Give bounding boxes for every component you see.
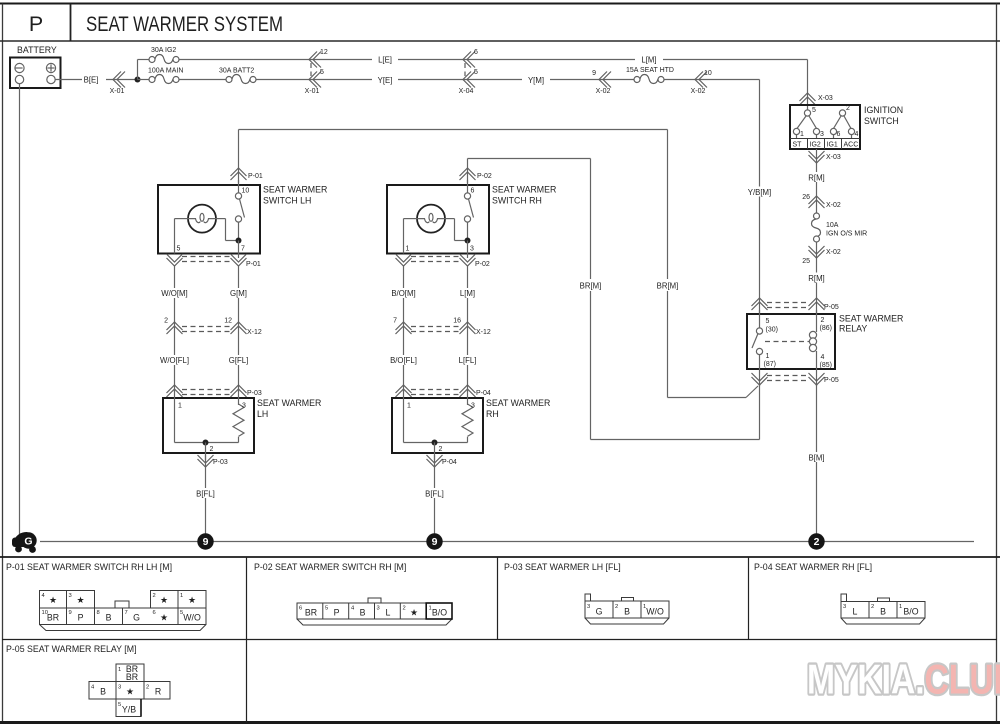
svg-text:BR: BR <box>305 608 317 618</box>
wire Y[E] to X-04 <box>398 79 522 81</box>
wire Y[M] to X-02 <box>550 79 637 81</box>
svg-text:6: 6 <box>299 606 302 612</box>
svg-text:X-02: X-02 <box>826 249 841 256</box>
svg-text:1: 1 <box>407 403 411 410</box>
wire L[M] to ignition switch <box>663 60 808 111</box>
ignition position label ST <box>793 142 803 149</box>
svg-text:B: B <box>880 607 886 617</box>
wire fuse to X-02 pin 10 <box>664 79 710 81</box>
label BR[M] left <box>577 280 604 291</box>
svg-text:X-12: X-12 <box>247 329 262 336</box>
svg-text:X-03: X-03 <box>826 154 841 161</box>
svg-text:5: 5 <box>812 107 816 114</box>
svg-text:Y/B[M]: Y/B[M] <box>748 188 771 197</box>
ignition pin 5 label <box>812 107 816 114</box>
connector X-04 pin 6 <box>463 49 478 68</box>
connector table grid <box>0 557 1000 723</box>
svg-text:W/O: W/O <box>183 613 201 623</box>
svg-text:X-03: X-03 <box>818 95 833 102</box>
connector X-03 below ignition switch <box>809 151 841 163</box>
P-04 pin 1 B/O <box>899 604 919 617</box>
svg-text:3: 3 <box>587 604 590 610</box>
table title P-01 <box>6 562 172 572</box>
label L[FL] <box>459 356 477 365</box>
heater RH pin 2 label <box>439 446 443 453</box>
svg-text:5: 5 <box>474 69 478 76</box>
wire to fuse 30A BATT2 <box>179 79 229 81</box>
relay pin 2 (86) label <box>820 317 832 332</box>
svg-text:BR[M]: BR[M] <box>657 282 679 291</box>
relay pin 1 (87) label <box>764 353 776 368</box>
svg-text:G[FL]: G[FL] <box>229 356 249 365</box>
svg-text:(86): (86) <box>820 325 832 332</box>
RH switch pin 1 label <box>406 246 410 253</box>
P-01 pin 2 star <box>153 593 169 605</box>
svg-text:4: 4 <box>821 354 825 361</box>
svg-text:2: 2 <box>615 604 618 610</box>
wire B[FL] LH to ground <box>193 455 218 536</box>
svg-text:B/O: B/O <box>903 607 918 617</box>
relay name <box>839 314 903 334</box>
connector X-02 pin 26 <box>802 194 841 209</box>
connector P-01 pinout housing <box>40 591 207 631</box>
connector X-03 above ignition switch <box>800 93 833 105</box>
svg-text:12: 12 <box>320 49 328 56</box>
svg-text:P-05: P-05 <box>824 304 839 311</box>
svg-text:SEAT WARMER: SEAT WARMER <box>263 185 327 195</box>
wire G[FL] <box>238 326 240 392</box>
P-01 pin 8 B <box>97 610 112 623</box>
svg-text:L: L <box>386 608 391 618</box>
svg-text:2: 2 <box>403 606 406 612</box>
svg-text:B[FL]: B[FL] <box>425 490 444 499</box>
label B/O[FL] <box>390 356 417 365</box>
heater LH name <box>257 398 321 419</box>
svg-text:9: 9 <box>69 610 72 616</box>
P-01 pin 4 star <box>42 593 58 605</box>
connector P-02 below RH switch <box>396 254 490 268</box>
svg-text:R: R <box>155 687 161 697</box>
seat warmer switch LH SW1 <box>158 180 260 258</box>
label G[FL] <box>229 356 249 365</box>
ground node 2 <box>808 533 824 549</box>
svg-text:10: 10 <box>242 188 250 195</box>
svg-text:X-01: X-01 <box>305 88 320 95</box>
svg-text:Y/B: Y/B <box>122 705 136 715</box>
svg-text:ST: ST <box>793 142 803 149</box>
relay pin 4 (85) label <box>820 354 832 369</box>
label Y[E] <box>372 75 398 86</box>
svg-text:G: G <box>24 536 32 548</box>
label L[M] <box>635 54 663 65</box>
svg-text:B: B <box>624 607 630 617</box>
P-02 pin 2 star <box>403 606 419 618</box>
upper bus wire to fuse 30A IG2 <box>138 59 153 61</box>
RH switch pin 6 label <box>471 188 475 195</box>
fuse 30A BATT2 <box>219 68 256 84</box>
label G[M] <box>230 289 247 298</box>
svg-text:3: 3 <box>69 593 72 599</box>
heater LH pin 2 label <box>210 446 214 453</box>
wire L[E] to X-04 <box>398 59 635 61</box>
wire B/O[M] RH left column <box>403 266 405 327</box>
svg-text:1: 1 <box>899 604 902 610</box>
wire B[E] battery to junction <box>55 74 137 84</box>
svg-text:4: 4 <box>855 131 859 138</box>
svg-text:30A BATT2: 30A BATT2 <box>219 68 254 75</box>
svg-text:1: 1 <box>406 246 410 253</box>
lower bus wire 100A MAIN <box>138 79 153 81</box>
svg-text:W/O[M]: W/O[M] <box>161 289 187 298</box>
label R[M] lower <box>808 274 824 283</box>
svg-text:X-02: X-02 <box>596 88 611 95</box>
P-01 pin 5 W/O <box>180 610 201 623</box>
P-04 pin 2 B <box>871 604 886 617</box>
wire B/O[FL] <box>403 326 405 392</box>
svg-text:2: 2 <box>846 105 850 112</box>
svg-text:P-04 SEAT WARMER RH [FL]: P-04 SEAT WARMER RH [FL] <box>754 562 872 572</box>
svg-text:BR[M]: BR[M] <box>580 282 602 291</box>
P-02 pin 3 L <box>377 606 391 618</box>
P-03 pin 2 B <box>615 604 630 617</box>
svg-text:3: 3 <box>118 685 121 691</box>
svg-text:2: 2 <box>164 318 168 325</box>
svg-text:P-03: P-03 <box>213 459 228 466</box>
svg-text:★: ★ <box>76 595 84 605</box>
svg-text:★: ★ <box>188 595 196 605</box>
heater RH pin 3 label <box>471 403 475 410</box>
svg-text:2: 2 <box>871 604 874 610</box>
svg-text:B/O[M]: B/O[M] <box>391 289 415 298</box>
svg-text:1: 1 <box>178 403 182 410</box>
svg-text:10: 10 <box>704 70 712 77</box>
ignition position label IG2 <box>810 142 821 149</box>
svg-text:SEAT WARMER: SEAT WARMER <box>839 314 903 324</box>
svg-text:RH: RH <box>486 409 499 419</box>
svg-text:7: 7 <box>393 318 397 325</box>
wire relay 87 down then left to BR[M] left branch <box>591 385 760 440</box>
svg-text:3: 3 <box>471 403 475 410</box>
label L[M] column <box>460 289 475 298</box>
connector P-05 pinout housing <box>89 664 170 717</box>
svg-text:B/O: B/O <box>432 608 447 618</box>
svg-text:W/O: W/O <box>646 607 664 617</box>
wire junction up to IG2 fuse bus <box>137 60 139 80</box>
connector P-01 above LH switch <box>231 168 263 180</box>
label W/O[M] <box>161 289 187 298</box>
svg-text:IG1: IG1 <box>827 142 838 149</box>
svg-text:X-04: X-04 <box>459 88 474 95</box>
connector P-03 above heater LH <box>167 385 262 397</box>
wire G[M] LH right column <box>238 266 240 327</box>
wire battery negative to ground <box>19 84 21 535</box>
svg-text:★: ★ <box>49 595 57 605</box>
svg-text:10A: 10A <box>826 222 839 229</box>
svg-text:2: 2 <box>439 446 443 453</box>
connector P-02 pinout housing <box>297 598 452 625</box>
svg-text:7: 7 <box>241 246 245 253</box>
svg-text:SEAT WARMER: SEAT WARMER <box>486 398 550 408</box>
seat warmer relay K1 <box>747 310 835 386</box>
fuse 10A IGN O/S MIR <box>812 213 868 242</box>
wire BR[M] left branch up to RH switch <box>468 159 591 440</box>
svg-text:26: 26 <box>802 194 810 201</box>
header title SEAT WARMER SYSTEM <box>86 13 283 36</box>
svg-text:SEAT WARMER: SEAT WARMER <box>492 185 556 195</box>
svg-text:12: 12 <box>224 318 232 325</box>
LH switch name <box>263 185 327 206</box>
svg-text:B: B <box>100 687 106 697</box>
svg-text:3: 3 <box>377 606 380 612</box>
svg-text:R[M]: R[M] <box>808 174 824 183</box>
RH switch pin 3 label <box>470 246 474 253</box>
seat warmer RH heater R2 <box>392 389 483 460</box>
connector X-04 pin 5 <box>459 69 478 95</box>
svg-text:2: 2 <box>146 685 149 691</box>
battery BT1 <box>10 58 61 89</box>
P-02 pin 5 P <box>325 606 340 618</box>
svg-text:Y[M]: Y[M] <box>528 76 544 85</box>
table title P-03 <box>504 562 621 572</box>
svg-text:L[M]: L[M] <box>641 56 656 65</box>
ignition switch U1 <box>790 105 860 149</box>
svg-text:P-01: P-01 <box>246 261 261 268</box>
P-01 pin 9 P <box>69 610 84 623</box>
svg-text:(87): (87) <box>764 361 776 368</box>
svg-text:P: P <box>334 608 340 618</box>
P-01 pin 6 star <box>153 610 169 623</box>
ignition position label ACC <box>844 142 859 149</box>
P-02 pin 6 BR <box>299 606 317 618</box>
svg-text:B[E]: B[E] <box>84 76 99 85</box>
svg-text:1: 1 <box>800 131 804 138</box>
svg-text:X-12: X-12 <box>476 329 491 336</box>
svg-text:P-03: P-03 <box>247 390 262 397</box>
P-05 pin 4 B <box>91 685 106 697</box>
svg-text:X-01: X-01 <box>110 88 125 95</box>
label L[E] <box>372 54 398 65</box>
svg-text:6: 6 <box>471 188 475 195</box>
table title P-05 <box>6 644 137 654</box>
svg-text:G: G <box>133 613 140 623</box>
svg-text:5: 5 <box>320 69 324 76</box>
connector P-05 lower pair <box>752 373 839 385</box>
wire fuse IG2 to connector <box>179 59 372 61</box>
ignition switch name <box>864 105 903 126</box>
connector P-03 below heater LH <box>198 455 228 467</box>
connector X-01 pin 5 <box>305 69 324 95</box>
ignition position label IG1 <box>827 142 838 149</box>
svg-text:IGN O/S MIR: IGN O/S MIR <box>826 231 867 238</box>
svg-text:Y[E]: Y[E] <box>378 76 393 85</box>
svg-text:ACC: ACC <box>844 142 859 149</box>
label B[E] <box>84 76 99 85</box>
svg-text:★: ★ <box>160 595 168 605</box>
connector P-01 below LH switch <box>167 254 261 268</box>
svg-text:SEAT WARMER SYSTEM: SEAT WARMER SYSTEM <box>86 13 283 36</box>
wire Y/B[M] to relay pin 5 <box>710 80 774 314</box>
svg-text:MYKIA.CLUB: MYKIA.CLUB <box>807 657 1000 703</box>
svg-text:P-02: P-02 <box>477 173 492 180</box>
svg-text:BR: BR <box>47 613 59 623</box>
connector X-02 pin 25 <box>802 246 841 265</box>
svg-text:BR: BR <box>126 672 138 682</box>
label B[FL] RH <box>425 490 444 499</box>
connector P-04 above heater RH <box>396 385 491 397</box>
svg-text:2: 2 <box>814 536 820 548</box>
svg-text:SWITCH: SWITCH <box>864 116 899 126</box>
svg-text:100A MAIN: 100A MAIN <box>148 68 183 75</box>
P-04 pin 3 L <box>843 604 858 617</box>
svg-text:(30): (30) <box>766 327 778 334</box>
svg-text:5: 5 <box>118 702 121 708</box>
svg-text:G: G <box>596 607 603 617</box>
svg-text:3: 3 <box>242 403 246 410</box>
P-05 pin 2 R <box>146 685 161 697</box>
svg-text:P-04: P-04 <box>476 390 491 397</box>
label B[M] <box>808 454 824 463</box>
svg-text:1: 1 <box>766 353 770 360</box>
svg-text:LH: LH <box>257 409 268 419</box>
svg-text:9: 9 <box>432 536 438 548</box>
svg-text:P-01 SEAT WARMER SWITCH RH LH: P-01 SEAT WARMER SWITCH RH LH [M] <box>6 562 172 572</box>
fuse 15A SEAT HTD <box>626 67 674 84</box>
svg-text:16: 16 <box>453 318 461 325</box>
svg-text:1: 1 <box>180 593 183 599</box>
fuse 30A IG2 <box>149 47 179 64</box>
svg-text:8: 8 <box>97 610 100 616</box>
P-02 pin 1 B/O <box>429 606 448 618</box>
svg-text:5: 5 <box>177 246 181 253</box>
heater LH pin 3 label <box>242 403 246 410</box>
wire BR[M] right branch up to LH switch <box>239 130 668 398</box>
table title P-02 <box>254 562 406 572</box>
label Y[M] <box>522 75 550 86</box>
ground bus wire <box>40 541 974 543</box>
svg-text:25: 25 <box>802 258 810 265</box>
LH switch pin 7 label <box>241 246 245 253</box>
svg-text:1: 1 <box>118 667 121 673</box>
svg-text:R[M]: R[M] <box>808 274 824 283</box>
label B/O[M] <box>391 289 415 298</box>
wire IG2 output R[M] chain <box>804 149 829 313</box>
P-02 pin 4 B <box>351 606 366 618</box>
P-01 pin 7 G <box>125 610 141 623</box>
svg-text:SWITCH LH: SWITCH LH <box>263 196 311 206</box>
svg-text:X-02: X-02 <box>691 88 706 95</box>
connector X-01 on B[E] wire <box>110 72 125 96</box>
svg-text:IGNITION: IGNITION <box>864 105 903 115</box>
connector P-02 above RH switch <box>460 168 492 180</box>
svg-text:9: 9 <box>203 536 209 548</box>
svg-text:9: 9 <box>592 70 596 77</box>
ground node 9 LH <box>197 533 213 549</box>
svg-text:B: B <box>360 608 366 618</box>
heater LH pin 1 label <box>178 403 182 410</box>
heater RH name <box>486 398 550 419</box>
ignition pin 4 label <box>855 131 859 138</box>
svg-text:2: 2 <box>153 593 156 599</box>
svg-text:P-03 SEAT WARMER LH [FL]: P-03 SEAT WARMER LH [FL] <box>504 562 621 572</box>
wire relay 87 diagonal to BR[M] right branch <box>668 386 759 398</box>
connector X-02 pin 9 <box>592 70 611 95</box>
wire BATT2 to X-01 <box>256 79 372 81</box>
connector X-12 pins 7 and 16 <box>393 318 491 337</box>
svg-text:P-05 SEAT WARMER RELAY [M]: P-05 SEAT WARMER RELAY [M] <box>6 644 137 654</box>
label Y/B[M] <box>748 188 771 197</box>
connector P-03 pinout housing <box>585 594 669 624</box>
label W/O[FL] <box>160 356 189 365</box>
svg-text:★: ★ <box>160 613 168 623</box>
junction node at fuse split <box>135 77 141 83</box>
connector X-01 pin 12 <box>309 49 328 68</box>
ignition pin 3 label <box>820 131 824 138</box>
svg-text:3: 3 <box>820 131 824 138</box>
ignition pin 2 label <box>846 105 850 112</box>
svg-text:3: 3 <box>843 604 846 610</box>
wire relay 85 output B[M] to ground <box>804 385 829 534</box>
connector X-12 pins 2 and 12 <box>164 318 262 337</box>
connector P-04 below heater RH <box>427 455 457 467</box>
ignition pin 6 label <box>837 131 841 138</box>
label BR[M] right <box>654 280 681 291</box>
battery label <box>17 45 57 55</box>
svg-text:6: 6 <box>153 610 156 616</box>
P-05 pin 1 BR BR <box>118 664 138 682</box>
svg-text:★: ★ <box>126 687 134 697</box>
connector P-04 pinout housing <box>841 594 925 624</box>
svg-text:L[FL]: L[FL] <box>459 356 477 365</box>
svg-text:SEAT WARMER: SEAT WARMER <box>257 398 321 408</box>
P-01 pin 3 star <box>69 593 85 605</box>
wire L[FL] <box>467 326 469 392</box>
connector tie dashes X-01 <box>310 63 312 76</box>
svg-text:B: B <box>106 613 112 623</box>
heater RH pin 1 label <box>407 403 411 410</box>
fuse 100A MAIN <box>148 68 183 84</box>
svg-text:7: 7 <box>125 610 128 616</box>
RH switch name <box>492 185 556 206</box>
svg-text:(85): (85) <box>820 362 832 369</box>
LH switch pin 5 label <box>177 246 181 253</box>
wire W/O[FL] <box>174 326 176 392</box>
svg-text:X-02: X-02 <box>826 202 841 209</box>
svg-text:6: 6 <box>837 131 841 138</box>
svg-text:BATTERY: BATTERY <box>17 45 57 55</box>
wire B[FL] RH to ground <box>422 455 447 536</box>
svg-text:P-01: P-01 <box>248 173 263 180</box>
P-03 pin 3 G <box>587 604 603 617</box>
svg-text:P: P <box>29 12 43 36</box>
svg-text:SWITCH RH: SWITCH RH <box>492 196 542 206</box>
svg-text:L: L <box>853 607 858 617</box>
svg-text:P-04: P-04 <box>442 459 457 466</box>
svg-text:2: 2 <box>210 446 214 453</box>
P-01 pin 1 star <box>180 593 196 605</box>
svg-text:30A IG2: 30A IG2 <box>151 47 176 54</box>
svg-text:3: 3 <box>470 246 474 253</box>
svg-text:B[M]: B[M] <box>808 454 824 463</box>
svg-text:P-02: P-02 <box>475 261 490 268</box>
label B[FL] LH <box>196 490 215 499</box>
svg-text:6: 6 <box>474 49 478 56</box>
seat warmer LH heater R1 <box>163 389 254 460</box>
P-05 pin 5 Y/B <box>118 702 136 715</box>
svg-text:P-05: P-05 <box>824 377 839 384</box>
svg-text:RELAY: RELAY <box>839 324 867 334</box>
watermark MYKIA.CLUB <box>807 657 1000 703</box>
connector P-05 upper pair <box>752 298 839 311</box>
